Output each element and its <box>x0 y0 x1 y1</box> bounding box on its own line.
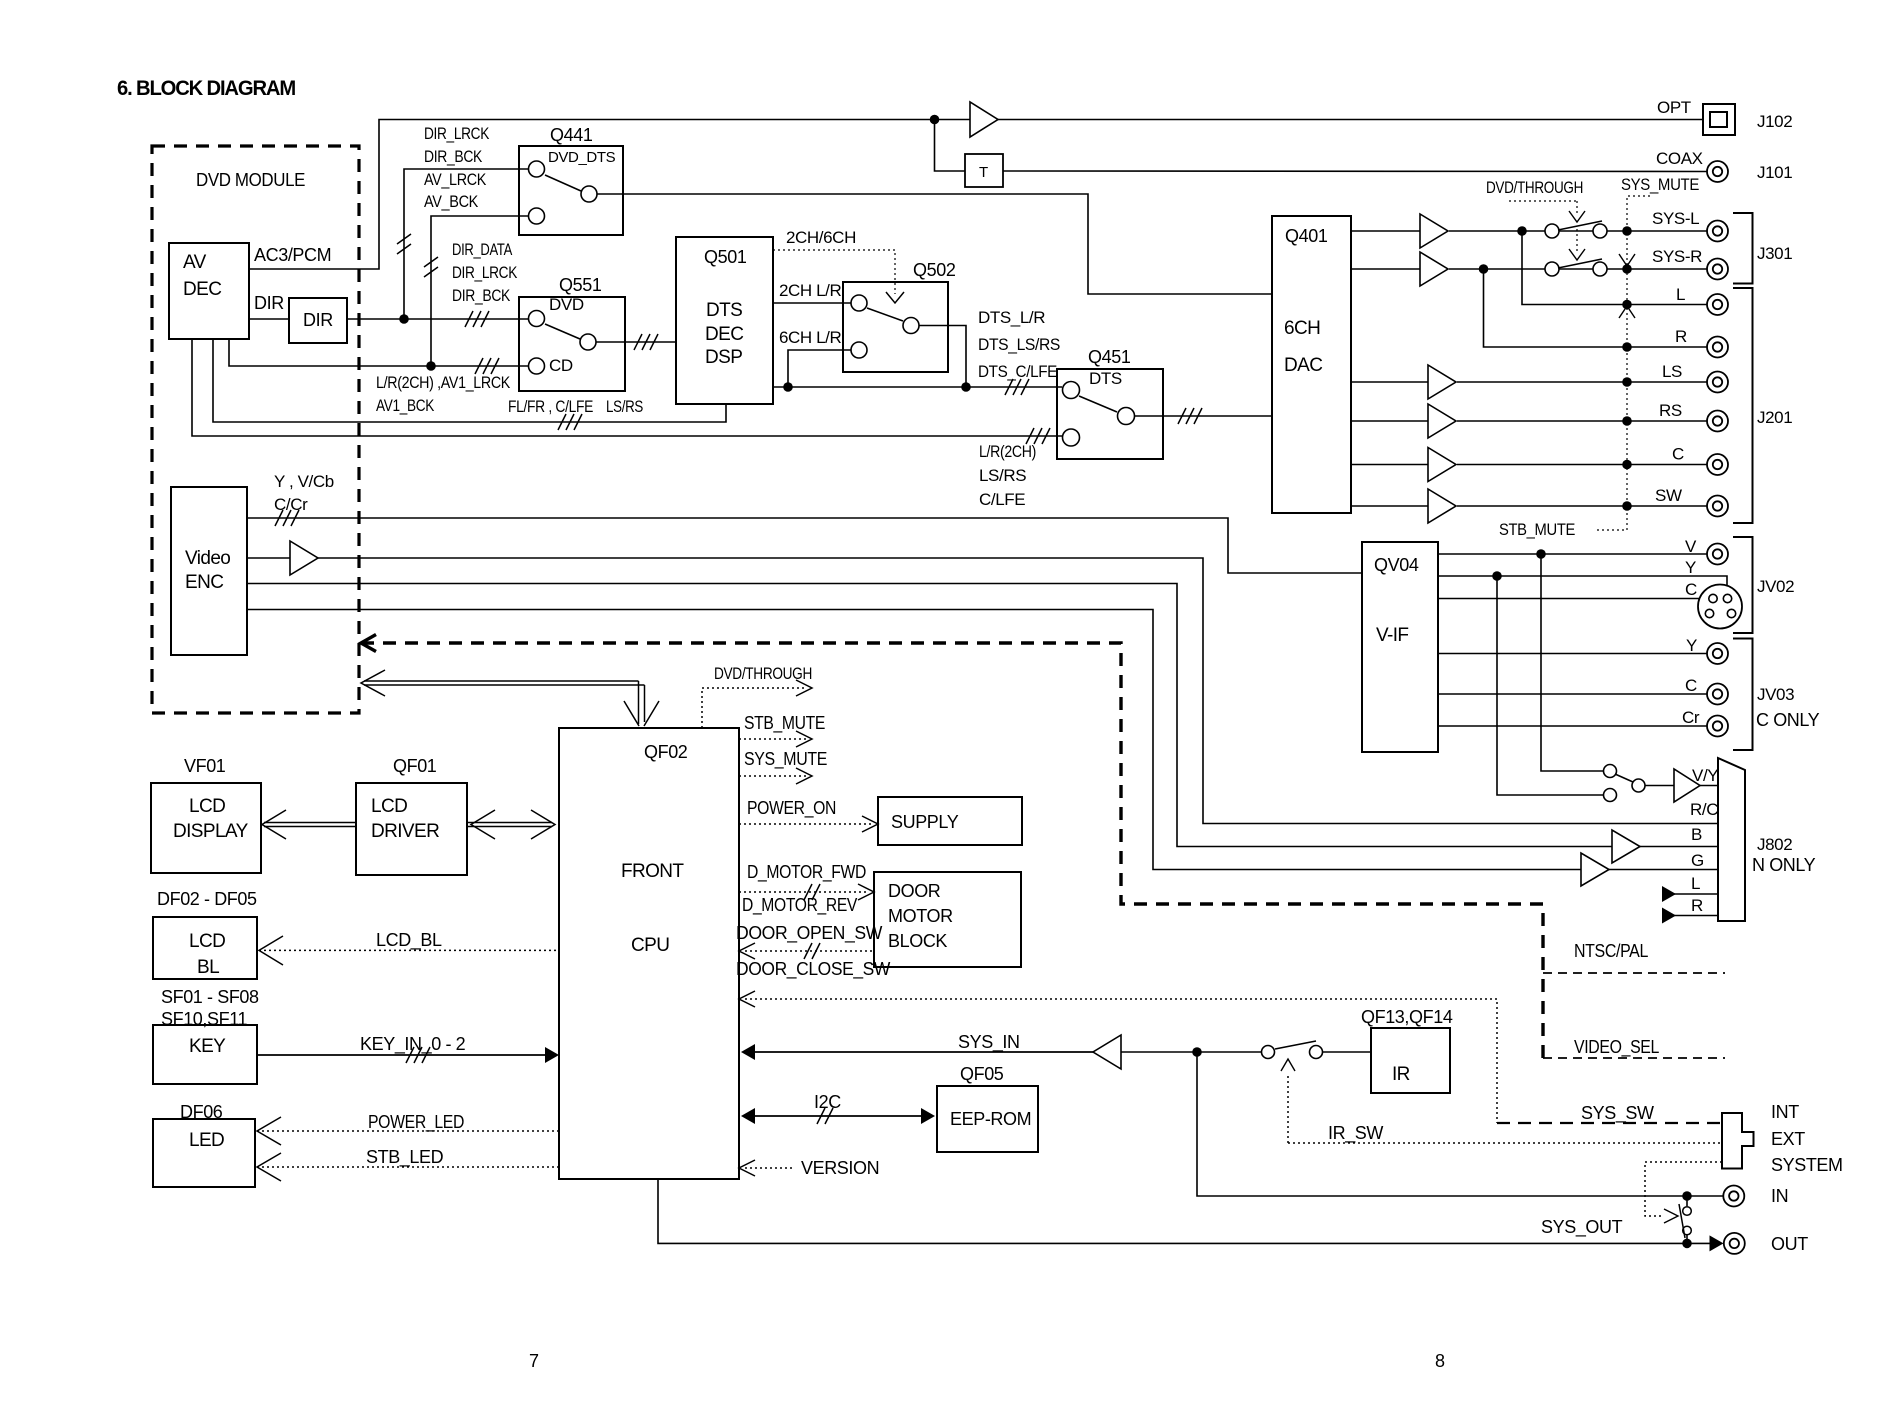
svg-text:DTS: DTS <box>706 300 742 321</box>
svg-text:DVD/THROUGH: DVD/THROUGH <box>1486 178 1583 197</box>
svg-text:KEY: KEY <box>189 1036 226 1057</box>
svg-text:POWER_ON: POWER_ON <box>747 798 836 819</box>
svg-text:DTS: DTS <box>1089 369 1122 388</box>
svg-text:L/R(2CH): L/R(2CH) <box>979 442 1036 461</box>
svg-text:R: R <box>1675 327 1687 346</box>
svg-text:Q441: Q441 <box>550 125 593 145</box>
svg-text:LCD: LCD <box>189 931 225 952</box>
svg-text:DIR: DIR <box>254 293 284 313</box>
svg-text:C/LFE: C/LFE <box>979 490 1025 509</box>
svg-text:J101: J101 <box>1757 163 1792 182</box>
svg-text:V: V <box>1685 537 1697 556</box>
svg-text:VERSION: VERSION <box>801 1158 879 1178</box>
svg-text:2CH L/R: 2CH L/R <box>779 281 842 300</box>
svg-text:LCD_BL: LCD_BL <box>376 930 442 951</box>
svg-text:SYS_MUTE: SYS_MUTE <box>744 749 827 770</box>
svg-text:DF02 - DF05: DF02 - DF05 <box>157 889 257 909</box>
svg-text:KEY_IN_0 - 2: KEY_IN_0 - 2 <box>360 1034 466 1055</box>
svg-text:J802: J802 <box>1757 835 1792 854</box>
svg-text:LCD: LCD <box>189 796 225 817</box>
svg-text:L: L <box>1691 874 1700 893</box>
svg-text:QF05: QF05 <box>960 1064 1004 1084</box>
svg-text:NTSC/PAL: NTSC/PAL <box>1574 941 1648 961</box>
svg-text:QF02: QF02 <box>644 742 688 762</box>
svg-text:SW: SW <box>1655 486 1682 505</box>
svg-text:LCD: LCD <box>371 796 407 817</box>
svg-text:SYS-R: SYS-R <box>1652 247 1702 266</box>
svg-text:VIDEO_SEL: VIDEO_SEL <box>1574 1037 1659 1058</box>
svg-text:DOOR_CLOSE_SW: DOOR_CLOSE_SW <box>736 959 890 980</box>
svg-text:B: B <box>1691 825 1702 844</box>
svg-text:DIR: DIR <box>303 310 333 330</box>
svg-text:STB_MUTE: STB_MUTE <box>1499 520 1575 539</box>
svg-text:L: L <box>1676 285 1685 304</box>
svg-text:C: C <box>1685 580 1697 599</box>
svg-text:DTS_L/R: DTS_L/R <box>978 308 1045 327</box>
svg-text:LED: LED <box>189 1130 224 1151</box>
svg-text:SYS_MUTE: SYS_MUTE <box>1621 175 1699 194</box>
svg-text:DRIVER: DRIVER <box>371 821 439 842</box>
svg-text:6. BLOCK DIAGRAM: 6. BLOCK DIAGRAM <box>117 77 296 100</box>
svg-text:2CH/6CH: 2CH/6CH <box>786 228 856 247</box>
svg-text:Y , V/Cb: Y , V/Cb <box>274 472 334 491</box>
svg-text:7: 7 <box>529 1351 539 1371</box>
svg-text:R: R <box>1691 896 1703 915</box>
svg-text:C: C <box>1685 676 1697 695</box>
svg-text:DIR_LRCK: DIR_LRCK <box>424 124 490 143</box>
svg-text:INT: INT <box>1771 1102 1799 1122</box>
svg-text:DAC: DAC <box>1284 355 1322 376</box>
svg-text:STB_LED: STB_LED <box>366 1147 444 1168</box>
svg-text:CPU: CPU <box>631 935 669 956</box>
svg-text:Cr: Cr <box>1682 708 1700 727</box>
svg-text:D_MOTOR_FWD: D_MOTOR_FWD <box>747 862 866 883</box>
svg-text:LS: LS <box>1662 362 1682 381</box>
svg-text:DOOR: DOOR <box>888 881 941 901</box>
svg-text:EEP-ROM: EEP-ROM <box>950 1109 1031 1129</box>
svg-text:AC3/PCM: AC3/PCM <box>254 245 331 265</box>
svg-text:DTS_LS/RS: DTS_LS/RS <box>978 335 1060 354</box>
svg-text:AV1_BCK: AV1_BCK <box>376 396 435 415</box>
svg-text:LS/RS: LS/RS <box>979 466 1026 485</box>
svg-text:VF01: VF01 <box>184 756 226 776</box>
svg-text:DIR_DATA: DIR_DATA <box>452 240 513 259</box>
svg-text:CD: CD <box>549 356 573 375</box>
svg-text:DVD: DVD <box>549 295 584 314</box>
svg-text:QV04: QV04 <box>1374 555 1419 575</box>
svg-text:DVD_DTS: DVD_DTS <box>548 149 616 166</box>
svg-text:QF13,QF14: QF13,QF14 <box>1361 1007 1453 1027</box>
svg-text:T: T <box>979 164 988 181</box>
svg-text:BL: BL <box>197 957 219 978</box>
svg-text:Q501: Q501 <box>704 247 747 267</box>
svg-text:Q401: Q401 <box>1285 226 1328 246</box>
svg-text:JV02: JV02 <box>1757 577 1794 596</box>
svg-text:IR_SW: IR_SW <box>1328 1123 1383 1144</box>
svg-text:G: G <box>1691 851 1704 870</box>
svg-text:AV_BCK: AV_BCK <box>424 192 479 211</box>
svg-text:R/C: R/C <box>1690 800 1718 819</box>
svg-text:JV03: JV03 <box>1757 685 1794 704</box>
svg-text:COAX: COAX <box>1656 149 1703 168</box>
svg-text:OPT: OPT <box>1657 98 1691 117</box>
svg-text:SYS_OUT: SYS_OUT <box>1541 1217 1623 1238</box>
svg-text:D_MOTOR_REV: D_MOTOR_REV <box>742 895 857 916</box>
svg-text:DIR_LRCK: DIR_LRCK <box>452 263 518 282</box>
svg-text:C: C <box>1672 445 1684 464</box>
svg-text:RS: RS <box>1659 401 1682 420</box>
svg-text:STB_MUTE: STB_MUTE <box>744 713 825 734</box>
svg-text:6CH: 6CH <box>1284 318 1320 339</box>
svg-text:IR: IR <box>1392 1064 1410 1085</box>
svg-text:DTS_C/LFE: DTS_C/LFE <box>978 362 1057 381</box>
svg-text:FL/FR , C/LFE: FL/FR , C/LFE <box>508 397 593 416</box>
svg-text:Video: Video <box>185 548 230 569</box>
svg-text:DISPLAY: DISPLAY <box>173 821 249 842</box>
svg-text:ENC: ENC <box>185 572 223 593</box>
svg-text:DOOR_OPEN_SW: DOOR_OPEN_SW <box>736 923 882 944</box>
svg-text:C ONLY: C ONLY <box>1756 710 1820 730</box>
svg-text:IN: IN <box>1771 1186 1788 1206</box>
svg-text:QF01: QF01 <box>393 756 437 776</box>
svg-text:POWER_LED: POWER_LED <box>368 1112 464 1133</box>
svg-text:Q551: Q551 <box>559 275 602 295</box>
svg-text:L/R(2CH) ,AV1_LRCK: L/R(2CH) ,AV1_LRCK <box>376 373 511 392</box>
svg-text:N ONLY: N ONLY <box>1752 855 1816 875</box>
svg-text:SYS_SW: SYS_SW <box>1581 1103 1654 1124</box>
svg-text:V-IF: V-IF <box>1376 625 1408 646</box>
svg-text:MOTOR: MOTOR <box>888 906 953 926</box>
svg-text:Y: Y <box>1685 558 1696 577</box>
svg-text:BLOCK: BLOCK <box>888 931 947 951</box>
svg-text:J301: J301 <box>1757 244 1792 263</box>
svg-text:DEC: DEC <box>183 279 221 300</box>
svg-text:FRONT: FRONT <box>621 861 684 882</box>
svg-text:SYS_IN: SYS_IN <box>958 1032 1020 1053</box>
svg-text:V/Y: V/Y <box>1692 766 1718 785</box>
svg-text:I2C: I2C <box>814 1092 841 1112</box>
svg-text:OUT: OUT <box>1771 1234 1808 1254</box>
svg-text:EXT: EXT <box>1771 1129 1805 1149</box>
svg-text:6CH L/R: 6CH L/R <box>779 328 842 347</box>
svg-text:Q451: Q451 <box>1088 347 1131 367</box>
svg-text:SF01 - SF08: SF01 - SF08 <box>161 987 259 1007</box>
svg-text:DIR_BCK: DIR_BCK <box>452 286 511 305</box>
svg-text:DEC: DEC <box>705 324 743 345</box>
svg-text:AV_LRCK: AV_LRCK <box>424 170 487 189</box>
svg-text:J102: J102 <box>1757 112 1792 131</box>
svg-text:Q502: Q502 <box>913 260 956 280</box>
svg-text:SUPPLY: SUPPLY <box>891 812 959 832</box>
svg-text:J201: J201 <box>1757 408 1792 427</box>
svg-text:SYSTEM: SYSTEM <box>1771 1155 1843 1175</box>
svg-text:8: 8 <box>1435 1351 1445 1371</box>
svg-text:AV: AV <box>183 252 207 273</box>
svg-text:LS/RS: LS/RS <box>606 397 643 416</box>
svg-text:DIR_BCK: DIR_BCK <box>424 147 483 166</box>
svg-text:DVD MODULE: DVD MODULE <box>196 170 305 190</box>
svg-text:Y: Y <box>1686 636 1697 655</box>
svg-text:SYS-L: SYS-L <box>1652 209 1699 228</box>
svg-text:DSP: DSP <box>705 347 742 368</box>
